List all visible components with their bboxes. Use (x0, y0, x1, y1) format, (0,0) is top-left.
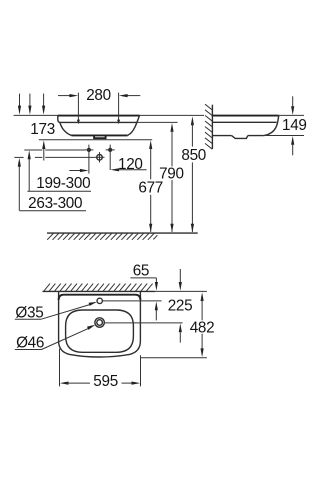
dim 280 extension line right (118, 93, 120, 120)
svg-text:173: 173 (30, 121, 55, 138)
side view bottom extension (264, 135, 304, 137)
dim 149 upper arrow (291, 96, 294, 115)
dim 595 line right (122, 382, 141, 385)
svg-text:199-300: 199-300 (36, 175, 90, 192)
side view wall line (211, 105, 213, 149)
dim 225 lower arrow (179, 323, 182, 342)
dim 65 lower arrow (155, 301, 158, 320)
side view rim top (212, 115, 278, 117)
plan view inner bowl (66, 310, 134, 352)
plan view wall line (43, 290, 156, 292)
arrow 199-300 vertical (28, 150, 31, 191)
svg-text:790: 790 (159, 166, 184, 183)
dim 790 (159, 123, 184, 233)
dim 225 upper arrow (179, 269, 182, 291)
front view: rim top extension line to wall (140, 114, 205, 116)
dim 149 lower arrow (291, 136, 294, 155)
dim 595 extension left (59, 349, 61, 387)
drain mark (front view) (95, 152, 105, 162)
basin front: drain tab (94, 136, 106, 138)
floor line (47, 232, 198, 234)
label 199-300 (27, 175, 91, 192)
load arrow 3 (42, 94, 45, 115)
dim 482 upper arrow (201, 292, 204, 320)
label diameter 46 (15, 334, 44, 351)
dim 280 arrow left (58, 94, 78, 97)
dim 65 label (130, 263, 156, 280)
svg-text:263-300: 263-300 (28, 195, 82, 212)
front view: rim top edge (58, 115, 140, 117)
svg-text:Ø46: Ø46 (16, 334, 44, 351)
dim 280 tick arrow right on rim (117, 120, 120, 125)
dim 280 extension line left (77, 93, 79, 120)
dim 850 (181, 116, 206, 232)
tap hole mark right (front view) (106, 145, 115, 170)
dim 595 extension right (140, 355, 142, 386)
plan view wall reference extension (155, 290, 207, 292)
tap hole axis line (103, 300, 162, 302)
side view deck line (212, 121, 276, 123)
plan tap hole circle (97, 298, 102, 303)
drain axis line (105, 322, 183, 324)
dim 280 tick arrow left on rim (77, 120, 80, 125)
svg-text:280: 280 (86, 87, 111, 104)
side view wall hatching (205, 104, 212, 149)
load arrow 2 (28, 94, 31, 115)
svg-text:65: 65 (133, 263, 149, 280)
load arrow 1 (18, 94, 21, 115)
side view drain tab (232, 136, 248, 139)
side view top extension (279, 114, 304, 116)
dim 677 (138, 140, 163, 232)
plan view basin rear edge (59, 295, 141, 300)
side view bottom line (212, 135, 231, 137)
basin front: bottom edge (72, 134, 128, 136)
basin front: right body curve (128, 122, 137, 135)
ref line to tap holes (24, 149, 84, 151)
svg-text:850: 850 (181, 147, 206, 164)
basin front: rim right edge (137, 116, 140, 123)
dim 482 lower arrow (201, 334, 204, 358)
plan view basin outer outline (59, 291, 141, 357)
ref line to drain (14, 156, 94, 158)
svg-text:225: 225 (168, 298, 193, 315)
basin front: rim left edge (58, 116, 61, 123)
basin front: deck line (61, 121, 137, 123)
leader 199-300 to tap hole axis (69, 169, 88, 172)
leader diameter 46 (42, 325, 96, 350)
label diameter 35 (15, 304, 44, 321)
deck extension line to 790 arrow (137, 121, 178, 123)
svg-text:149: 149 (282, 117, 307, 134)
tap hole mark left (front view) (84, 145, 93, 174)
datum line at tab bottom (39, 139, 152, 141)
side view bottom line right (248, 135, 264, 137)
basin front: left body curve (60, 122, 72, 135)
arrow 263-300 vertical (18, 158, 21, 211)
front view: rim top reference line left extension (14, 114, 58, 116)
dim 280 arrow right (119, 94, 141, 97)
dim 173 lower arrow (42, 140, 45, 160)
side view front edge (264, 116, 279, 136)
plan drain inner circle (97, 320, 103, 326)
label 263-300 (20, 195, 86, 212)
plan drain outer circle (95, 318, 104, 327)
svg-text:120: 120 (118, 156, 143, 173)
dim 120 arrow (110, 168, 146, 171)
svg-text:595: 595 (93, 373, 118, 390)
dim 595 line left (60, 382, 90, 385)
plan view wall hatching (44, 284, 153, 292)
plan bottom reference line (141, 357, 207, 359)
floor hatching (47, 233, 157, 239)
leader diameter 35 (41, 302, 97, 319)
dim 65 upper arrow (155, 278, 158, 291)
